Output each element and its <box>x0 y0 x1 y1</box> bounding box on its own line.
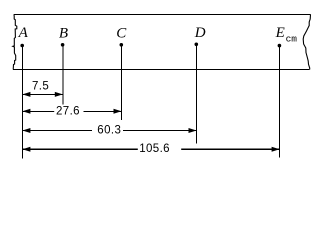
svg-text:27.6: 27.6 <box>56 105 80 117</box>
dot C <box>120 43 124 47</box>
svg-text:D: D <box>194 25 206 41</box>
svg-text:E: E <box>275 25 285 41</box>
svg-text:C: C <box>116 25 127 41</box>
tape right torn edge <box>303 14 310 69</box>
extension line E <box>279 47 281 158</box>
extension line A <box>21 46 23 159</box>
svg-text:A: A <box>18 25 29 41</box>
svg-text:105.6: 105.6 <box>139 143 170 155</box>
extension line B <box>62 46 64 105</box>
extension line D <box>196 46 198 144</box>
tape bottom edge <box>13 69 310 71</box>
tape left torn edge <box>13 14 17 69</box>
dimension line 7.5 (A to B) <box>22 93 62 95</box>
extension line C <box>121 46 123 120</box>
tape top edge <box>14 13 311 15</box>
dot E <box>278 44 282 48</box>
dot D <box>195 43 199 47</box>
dimension line 60.3 (A to D) <box>22 130 196 132</box>
dot A <box>20 44 24 48</box>
svg-text:7.5: 7.5 <box>32 80 49 92</box>
dot B <box>61 43 65 47</box>
dimension line 27.6 (A to C) <box>22 110 121 112</box>
svg-text:cm: cm <box>286 33 298 44</box>
dimension line 105.6 (A to E) <box>22 148 279 150</box>
svg-text:B: B <box>59 25 68 41</box>
svg-text:60.3: 60.3 <box>97 125 121 137</box>
